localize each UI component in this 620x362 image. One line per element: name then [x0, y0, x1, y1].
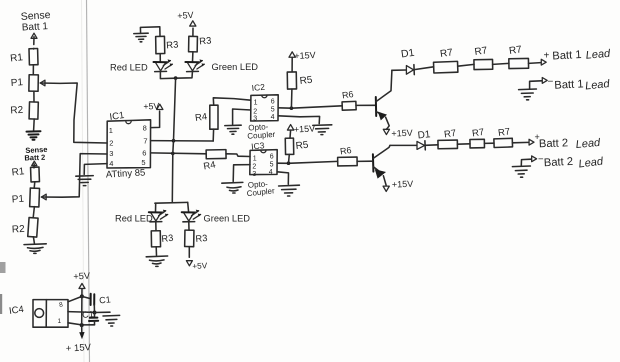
svg-text:Lead: Lead	[585, 78, 611, 93]
svg-text:R2: R2	[12, 224, 26, 236]
svg-text:Red LED: Red LED	[110, 63, 148, 73]
wire IC1 pin 6 to R4	[151, 152, 207, 155]
junction LED bus (top)	[174, 76, 178, 80]
resistor R7 (Batt 1, first)	[434, 47, 458, 73]
junction IC3 pin5 / R5	[287, 161, 291, 165]
svg-text:1: 1	[254, 100, 258, 107]
IC3 pin numbers	[252, 154, 273, 178]
svg-text:P1: P1	[11, 194, 24, 206]
capacitor C1 (output)	[82, 294, 111, 313]
power +5V (IC1 pin 8)	[143, 101, 163, 112]
ground (IC2 pin 4)	[313, 125, 332, 135]
svg-text:4: 4	[109, 159, 113, 168]
wire IC3 pin 5 to R6	[277, 161, 337, 163]
wire green LED to bus	[176, 72, 193, 78]
wire P1 wiper to IC1 pin 2	[40, 80, 107, 143]
junction IC4 common node	[93, 311, 97, 315]
svg-text:Batt 1: Batt 1	[552, 49, 582, 63]
wire common to ground	[95, 311, 111, 313]
IC IC4 voltage regulator	[8, 300, 68, 328]
ground (Batt 2 divider)	[24, 244, 46, 254]
svg-text:Lead: Lead	[578, 155, 605, 170]
svg-text:3: 3	[252, 171, 256, 178]
svg-text:6: 6	[142, 149, 146, 158]
LED green (top)	[185, 59, 258, 72]
wire IC3 pin 4 to ground	[277, 172, 288, 184]
wire IC2 pin 5 to R6	[278, 106, 342, 108]
svg-text:4: 4	[271, 114, 275, 121]
svg-text:R1: R1	[10, 52, 24, 64]
svg-text:P1: P1	[10, 77, 23, 89]
wire IC1 pin 7 to R4	[151, 140, 214, 142]
LED red (bottom)	[115, 210, 168, 224]
junction IC4 +15V node	[80, 323, 84, 327]
ground (top red LED R3)	[134, 27, 160, 42]
svg-text:Green LED: Green LED	[204, 214, 251, 224]
svg-text:R4: R4	[194, 111, 208, 124]
svg-text:1: 1	[109, 126, 113, 135]
potentiometer P1 (Batt 1 divider)	[10, 75, 38, 92]
wire IC3 pin 2 to ground	[233, 165, 250, 182]
svg-text:R6: R6	[339, 145, 352, 157]
potentiometer P1 (Batt 2 divider)	[11, 188, 39, 207]
svg-text:2: 2	[109, 139, 113, 148]
svg-text:+ 15V: + 15V	[66, 342, 92, 354]
svg-text:R3: R3	[195, 233, 208, 244]
svg-text:Batt 2: Batt 2	[539, 137, 569, 150]
wire R7b-R7c (Batt 1)	[493, 63, 509, 64]
resistor R5 (lower)	[285, 138, 309, 163]
resistor R1 (Batt 2 divider)	[11, 166, 39, 188]
wire IC4 pin out to +5V node	[68, 296, 82, 301]
svg-text:R5: R5	[295, 140, 309, 152]
power +5V (bottom green LED)	[186, 261, 208, 271]
resistor R7 (Batt 2, first)	[438, 128, 458, 149]
resistor R3 (top green LED)	[189, 28, 212, 62]
capacitor C1 (input)	[82, 309, 99, 325]
svg-text:1: 1	[58, 318, 62, 325]
svg-text:R3: R3	[166, 39, 179, 51]
wire R7a-R7b (Batt 2)	[457, 143, 470, 145]
svg-text:+: +	[544, 51, 550, 62]
svg-text:R7: R7	[508, 44, 523, 57]
svg-text:R7: R7	[443, 128, 457, 141]
power +15V (IC4 input)	[66, 325, 92, 354]
resistor R3 (top red LED)	[156, 27, 179, 62]
node - Batt 1 Lead	[530, 77, 611, 93]
resistor R6 (lower)	[338, 145, 372, 166]
node Sense Batt 1	[20, 9, 51, 45]
svg-text:R3: R3	[199, 35, 212, 47]
power +5V (top green LED)	[177, 10, 196, 26]
wire IC4 common pin	[68, 311, 95, 314]
resistor R6 (upper)	[341, 89, 375, 110]
vertical wire IC4 node	[81, 296, 83, 325]
wire IC4 input pin	[68, 323, 95, 325]
node Sense Batt 2	[24, 145, 47, 168]
wire IC1 pin 8 to +5V	[151, 111, 160, 127]
node + Batt 1 Lead	[529, 48, 612, 65]
wire P1 wiper to IC1 pin 3	[41, 154, 107, 200]
ground (IC2 pin 2)	[225, 125, 241, 134]
wire R7a-R7b (Batt 1)	[458, 64, 474, 66]
ground (IC1 pin 4)	[76, 176, 93, 186]
transistor Q1	[376, 70, 392, 129]
svg-text:R3: R3	[161, 233, 174, 244]
junction pin7 / LED bus	[172, 139, 176, 143]
svg-text:Coupler: Coupler	[247, 130, 276, 141]
svg-text:+5V: +5V	[143, 101, 159, 112]
svg-text:D1: D1	[417, 129, 431, 141]
ground (IC3 pin 4)	[279, 185, 300, 196]
svg-text:Lead: Lead	[585, 48, 611, 62]
ground (- Batt 2 Lead)	[512, 166, 530, 177]
IC1 pin numbers 1-4	[109, 126, 114, 168]
node + Batt 2 Lead	[512, 132, 601, 151]
svg-text:R4: R4	[203, 160, 217, 173]
IC2 pin numbers	[253, 99, 275, 123]
wire red LED to bus	[160, 72, 175, 79]
ground (- Batt 1 Lead)	[519, 89, 537, 100]
wire IC2 pin 4 to ground	[278, 116, 319, 124]
wire IC1 pin 4 to ground	[84, 164, 107, 175]
svg-text:+5V: +5V	[73, 271, 91, 282]
power +15V (Q1 emitter)	[383, 128, 413, 139]
resistor R7 (Batt 1, third)	[508, 44, 528, 68]
svg-text:IC4: IC4	[8, 304, 24, 317]
svg-text:C1: C1	[99, 294, 111, 305]
svg-text:3: 3	[253, 115, 257, 122]
wire LED bus vertical	[172, 78, 175, 201]
svg-text:2: 2	[252, 164, 256, 171]
IC IC1 ATtiny85	[106, 110, 151, 180]
diode D1 (Batt 1)	[392, 47, 434, 75]
svg-text:Red LED: Red LED	[115, 214, 153, 224]
svg-text:R7: R7	[471, 127, 485, 140]
svg-text:5: 5	[141, 158, 145, 167]
resistor R7 (Batt 2, third)	[494, 126, 513, 147]
svg-text:R2: R2	[10, 105, 24, 117]
svg-text:Green LED: Green LED	[212, 62, 259, 72]
svg-text:R7: R7	[474, 45, 489, 58]
ground (bottom red LED)	[146, 256, 167, 266]
svg-text:−: −	[548, 77, 554, 88]
power +5V (IC4 output)	[73, 271, 91, 297]
svg-text:3: 3	[109, 149, 113, 158]
svg-text:2: 2	[253, 108, 257, 115]
svg-text:+5V: +5V	[177, 10, 194, 21]
svg-text:7: 7	[143, 137, 147, 146]
transistor Q2	[373, 145, 390, 185]
power +15V (lower R5)	[287, 123, 315, 138]
LED red (top)	[110, 59, 173, 72]
svg-text:IC2: IC2	[251, 82, 265, 93]
resistor R4 (upper, to IC2)	[194, 98, 250, 141]
power +15V (Q2 emitter)	[383, 179, 413, 192]
svg-text:5: 5	[270, 161, 274, 168]
IC1 pin numbers 8-5	[141, 124, 147, 167]
svg-text:+15V: +15V	[392, 179, 414, 190]
resistor R2 (Batt 2 divider)	[12, 207, 38, 244]
ground (Batt 1 divider)	[27, 131, 41, 140]
svg-text:Coupler: Coupler	[246, 186, 275, 198]
junction IC2 pin5 / R5	[290, 106, 294, 110]
power +15V (upper R5)	[289, 50, 316, 72]
resistor R2 (Batt 1 divider)	[10, 91, 38, 130]
wire IC2 pin 2 to ground	[233, 109, 251, 124]
svg-text:4: 4	[269, 169, 273, 176]
svg-text:R7: R7	[497, 126, 511, 139]
junction IC4 +5V node	[80, 294, 84, 298]
svg-text:R1: R1	[11, 166, 25, 178]
wire bottom LED tee	[155, 202, 189, 212]
svg-text:6: 6	[271, 99, 275, 106]
svg-text:8: 8	[143, 124, 147, 133]
resistor R7 (Batt 2, second)	[470, 127, 485, 148]
resistor R4 (lower, to IC3)	[203, 150, 250, 173]
resistor R3 (bottom red LED)	[151, 222, 174, 255]
svg-text:5: 5	[271, 107, 275, 114]
wire R7b-R7c (Batt 2)	[484, 142, 494, 144]
junction pin6 / LED bus	[171, 152, 175, 156]
resistor R7 (Batt 1, second)	[474, 45, 493, 69]
svg-text:R5: R5	[299, 75, 313, 87]
svg-text:Lead: Lead	[575, 137, 601, 151]
svg-text:1: 1	[253, 155, 257, 162]
svg-text:Batt 1: Batt 1	[554, 78, 584, 92]
IC IC3 opto-coupler	[246, 140, 277, 198]
svg-text:R6: R6	[341, 89, 354, 101]
resistor R5 (upper)	[287, 72, 313, 108]
IC IC2 opto-coupler	[247, 82, 278, 141]
svg-text:Batt 2: Batt 2	[544, 156, 574, 170]
svg-text:+15V: +15V	[391, 128, 413, 139]
ground (IC3 pin 2)	[222, 182, 243, 193]
svg-text:Batt 1: Batt 1	[22, 21, 49, 33]
svg-text:R7: R7	[439, 47, 454, 60]
svg-text:+15V: +15V	[294, 123, 316, 134]
diode D1 (Batt 2)	[390, 129, 438, 150]
svg-text:6: 6	[270, 154, 274, 161]
svg-text:+15V: +15V	[294, 50, 316, 61]
resistor R3 (bottom green LED)	[185, 222, 208, 257]
svg-text:ATtiny 85: ATtiny 85	[106, 167, 146, 180]
LED green (bottom)	[182, 210, 251, 224]
svg-text:8: 8	[59, 301, 64, 309]
ground (IC4 common)	[103, 315, 120, 326]
node - Batt 2 Lead	[521, 154, 604, 170]
svg-text:+5V: +5V	[192, 261, 208, 271]
svg-text:D1: D1	[400, 47, 415, 61]
resistor R1 (Batt 1 divider)	[10, 48, 38, 74]
